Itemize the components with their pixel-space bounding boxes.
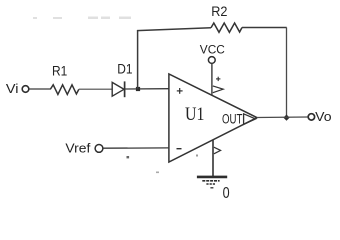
svg-text:OUT: OUT bbox=[222, 111, 242, 126]
node Vo terminal circle bbox=[308, 114, 314, 120]
ground bbox=[197, 177, 227, 188]
wire feedback left vertical bbox=[137, 30, 139, 89]
op-amp + input mark bbox=[177, 88, 183, 94]
svg-text:D1: D1 bbox=[117, 60, 132, 76]
junction dot at output node bbox=[283, 114, 289, 120]
node VCC terminal circle bbox=[208, 57, 215, 64]
diode D1 bbox=[112, 81, 124, 97]
wire top left horizontal to R2 bbox=[137, 28, 211, 31]
V- pin arrow chevron bbox=[214, 147, 221, 154]
noise specks (scan artifacts) bbox=[33, 17, 131, 20]
resistor R1 bbox=[51, 85, 79, 95]
wire D1 to op-amp + input bbox=[125, 88, 169, 90]
wire Vref to op-amp - input bbox=[103, 147, 169, 149]
wire feedback right vertical bbox=[286, 28, 288, 119]
wire VCC power pin bbox=[211, 64, 213, 96]
node Vi terminal circle bbox=[22, 86, 29, 93]
wire op-amp output to Vo bbox=[257, 116, 308, 119]
output pin arrow bbox=[244, 114, 256, 125]
node Vref terminal circle bbox=[95, 145, 103, 153]
op-amp - input mark bbox=[177, 148, 182, 150]
junction dot at feedback tap bbox=[136, 87, 140, 91]
V+ pin arrow chevron bbox=[213, 86, 223, 93]
wire R2 to right corner bbox=[242, 27, 287, 29]
op-amp U1 triangle bbox=[169, 74, 257, 162]
svg-text:0: 0 bbox=[223, 185, 230, 202]
resistor R2 bbox=[211, 23, 242, 32]
svg-text:R1: R1 bbox=[52, 63, 67, 79]
svg-text:Vref: Vref bbox=[65, 141, 90, 156]
wire Vi to R1 bbox=[29, 88, 51, 90]
svg-text:R2: R2 bbox=[211, 3, 227, 19]
svg-text:VCC: VCC bbox=[200, 45, 225, 57]
svg-text:U1: U1 bbox=[185, 104, 204, 125]
wire R1 to D1 bbox=[79, 88, 112, 90]
V+ pin plus label bbox=[216, 77, 220, 81]
svg-text:Vi: Vi bbox=[6, 81, 19, 96]
svg-text:Vo: Vo bbox=[315, 109, 331, 124]
wire V- power pin bbox=[212, 140, 214, 177]
